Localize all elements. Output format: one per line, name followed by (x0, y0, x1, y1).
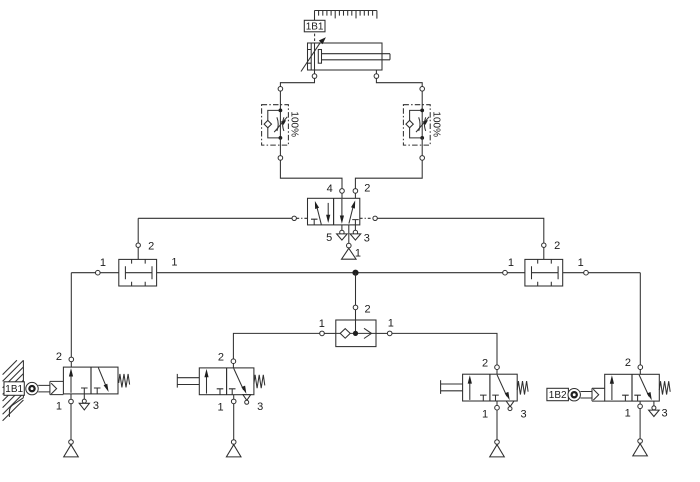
roller label 1B2 (547, 388, 569, 401)
5/2-way valve 1V3 (308, 198, 360, 225)
1S3 port 1 (70, 394, 72, 399)
1S3 exhaust 3 (83, 394, 85, 399)
air source under 1S4 (633, 444, 648, 456)
svg-text:2: 2 (482, 358, 488, 370)
wire 1V6 to valve 1S5 (392, 333, 497, 365)
signal bus wire middle (157, 272, 503, 274)
exhaust port 5 (341, 225, 343, 230)
signal bus wire right (563, 272, 584, 274)
plunger actuator of 1S2 (177, 374, 199, 388)
supply port 1 of 1V3 (348, 225, 350, 244)
wire 1V2 to port 2 (421, 138, 423, 156)
wire bus to valve 1S4 output (639, 273, 641, 365)
svg-text:2: 2 (365, 303, 371, 315)
dashed sensor link (314, 34, 316, 42)
pilot line left 14 (138, 217, 292, 219)
1S5 port 1 (496, 401, 498, 406)
roller label 1B1 (4, 382, 24, 396)
roller actuator of 1S3 (26, 381, 64, 394)
signal bus wire left (71, 272, 95, 274)
shuttle valve 1V4 (119, 259, 157, 286)
svg-text:3: 3 (364, 232, 370, 244)
exhaust port 3 (354, 225, 356, 230)
svg-text:1: 1 (578, 257, 584, 269)
wire 1S3 to source (70, 404, 72, 440)
one-way flow control valve 1V2 (403, 105, 441, 145)
svg-text:3: 3 (662, 408, 668, 420)
svg-text:1B1: 1B1 (5, 384, 23, 395)
svg-text:1: 1 (388, 318, 394, 330)
1V6 port left (320, 331, 325, 336)
svg-text:1: 1 (482, 408, 488, 420)
svg-text:100%: 100% (431, 111, 442, 137)
sensor label 1B1 (304, 20, 325, 32)
cylinder port right (375, 70, 377, 74)
svg-text:3: 3 (93, 400, 99, 412)
svg-text:100%: 100% (289, 111, 300, 137)
svg-text:2: 2 (554, 240, 560, 252)
svg-text:2: 2 (625, 357, 631, 369)
svg-text:2: 2 (148, 241, 154, 253)
compressed air source under 1V3 (342, 248, 357, 259)
1V6 port right (376, 332, 388, 334)
svg-text:3: 3 (521, 408, 527, 420)
svg-text:1: 1 (56, 401, 62, 413)
two-pressure valve 1V6 (336, 320, 376, 347)
wire 1V6 to valve 1S2 (233, 333, 319, 359)
svg-text:1B2: 1B2 (549, 390, 567, 401)
plunger actuator of 1S5 (441, 380, 463, 394)
wire 1S2 to source (233, 404, 235, 440)
cylinder port left (314, 70, 316, 74)
svg-text:1: 1 (355, 247, 361, 259)
svg-text:1B1: 1B1 (306, 22, 324, 33)
svg-text:1: 1 (171, 256, 177, 268)
displacement ruler scale (315, 11, 377, 21)
1S2 exhaust 3 (243, 395, 251, 401)
3/2-way valve 1S2 (199, 368, 264, 395)
svg-text:3: 3 (257, 401, 263, 413)
wire bus to valve 1S3 output (70, 273, 72, 358)
svg-text:2: 2 (56, 351, 62, 363)
1S5 exhaust 3 (506, 401, 514, 407)
1S4 port 1 (639, 401, 641, 404)
3/2-way roller valve 1S4 (605, 374, 671, 401)
cylinder 1A1 (301, 37, 390, 71)
3/2-way roller valve 1S3 (63, 367, 129, 394)
svg-text:4: 4 (327, 183, 333, 195)
svg-text:2: 2 (218, 351, 224, 363)
bus junction node (352, 270, 358, 276)
mechanical stop wall for 1B1 (3, 360, 24, 421)
wire junction to two-pressure valve (355, 273, 357, 306)
air source under 1S2 (226, 445, 241, 457)
svg-text:1: 1 (625, 408, 631, 420)
roller actuator of 1S4 (568, 388, 605, 401)
svg-text:2: 2 (364, 183, 370, 195)
pilot line right 12 (360, 217, 373, 219)
svg-text:1: 1 (100, 257, 106, 269)
svg-text:1: 1 (218, 402, 224, 414)
svg-text:1: 1 (508, 257, 514, 269)
svg-text:5: 5 (326, 232, 332, 244)
1S4 exhaust 3 (653, 401, 655, 406)
3/2-way valve 1S5 (463, 374, 528, 401)
shuttle valve 1V5 (525, 259, 563, 286)
wire 1V1 to port 4 (279, 138, 281, 156)
air source under 1S3 (64, 445, 79, 457)
one-way flow control valve 1V1 (262, 105, 300, 145)
wire 1S4 to source (639, 409, 641, 439)
wire cylinder right to throttle 1V2 (376, 78, 422, 86)
wire left shuttle to pilot (137, 218, 139, 243)
1S2 port 1 (233, 395, 235, 400)
air source under 1S5 (490, 445, 505, 457)
wire 1S5 to source (496, 410, 498, 440)
svg-text:1: 1 (319, 318, 325, 330)
wire cylinder left to throttle 1V1 (280, 78, 314, 86)
